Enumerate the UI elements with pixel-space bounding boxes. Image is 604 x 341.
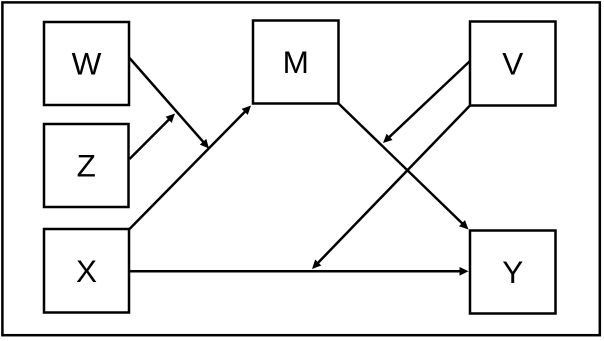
arrow X to M	[130, 106, 252, 230]
svg-text:V: V	[502, 46, 523, 82]
box W	[44, 22, 129, 105]
box Y	[470, 231, 556, 314]
arrow X to Y	[130, 267, 469, 276]
box X	[44, 229, 129, 313]
box V	[470, 22, 556, 106]
box Z	[44, 124, 129, 207]
svg-text:W: W	[72, 46, 102, 82]
svg-text:Y: Y	[502, 254, 523, 290]
svg-text:X: X	[76, 253, 97, 289]
arrow V to M-Y path	[383, 61, 470, 143]
arrow M to Y	[339, 104, 469, 230]
box M	[253, 21, 339, 104]
svg-text:Z: Z	[77, 148, 96, 184]
arrow V to X-Y path	[312, 106, 470, 270]
arrow W to X-M path	[130, 58, 210, 149]
svg-text:M: M	[283, 44, 309, 80]
arrow Z to W-arrow path	[130, 114, 176, 160]
